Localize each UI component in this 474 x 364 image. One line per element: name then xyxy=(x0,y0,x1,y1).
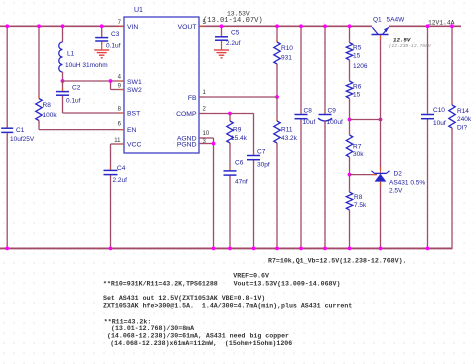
svg-text:100uf: 100uf xyxy=(327,119,343,126)
node R10 top xyxy=(275,24,279,28)
svg-text:SW1: SW1 xyxy=(127,79,142,86)
svg-text:C6: C6 xyxy=(235,159,244,166)
svg-text:R6: R6 xyxy=(353,84,362,91)
wire SW1 xyxy=(63,80,111,82)
wire AGND xyxy=(199,137,214,139)
svg-text:2.2uf: 2.2uf xyxy=(226,40,241,47)
capacitor C4 xyxy=(110,144,112,170)
svg-text:DI?: DI? xyxy=(457,125,468,132)
svg-text:240k: 240k xyxy=(457,116,472,123)
node FB junction xyxy=(275,95,279,99)
node ref junction xyxy=(348,173,352,177)
wire base node xyxy=(350,119,381,121)
capacitor C10 10uf xyxy=(427,26,429,113)
svg-text:**R10=931K/R11=43.2K,TPS61288: **R10=931K/R11=43.2K,TPS61288 Vout=13.53… xyxy=(103,281,340,288)
svg-text:R7=10k,Q1_Vb=12.5V(12.238-12.7: R7=10k,Q1_Vb=12.5V(12.238-12.768V). xyxy=(268,257,407,264)
svg-text:R9: R9 xyxy=(233,127,242,134)
svg-text:D2: D2 xyxy=(394,171,403,178)
svg-text:C9: C9 xyxy=(328,108,337,115)
svg-text:BST: BST xyxy=(127,111,140,118)
svg-text:VIN: VIN xyxy=(127,24,138,31)
node C6 bottom xyxy=(228,247,232,251)
resistor R6 15 xyxy=(349,78,351,82)
capacitor C1 xyxy=(6,26,8,127)
svg-text:43.2k: 43.2k xyxy=(281,135,298,142)
inductor L1 xyxy=(62,26,64,42)
wire EN to R8 xyxy=(39,129,124,131)
svg-text:C3: C3 xyxy=(111,31,120,38)
svg-text:2.2uf: 2.2uf xyxy=(113,177,128,184)
svg-text:100k: 100k xyxy=(43,112,58,119)
resistor R5 15 1206 xyxy=(349,26,351,42)
svg-text:12V1.4A: 12V1.4A xyxy=(428,20,455,27)
diode D2 AS431 xyxy=(375,172,387,174)
svg-text:C5: C5 xyxy=(231,30,240,37)
svg-text:10uf: 10uf xyxy=(433,120,446,127)
wire 12V output rail xyxy=(389,25,461,27)
svg-text:ZXT1053AK hfe>300@1.5A. 1.4A/: ZXT1053AK hfe>300@1.5A. 1.4A/300=4.7mA(m… xyxy=(103,303,352,310)
capacitor C5 xyxy=(221,26,223,36)
node AGND/PGND ground xyxy=(212,247,216,251)
svg-text:FB: FB xyxy=(188,95,197,102)
svg-text:COMP: COMP xyxy=(176,111,197,118)
svg-text:R11: R11 xyxy=(281,127,293,134)
svg-text:0.1uf: 0.1uf xyxy=(106,43,121,50)
capacitor C2 xyxy=(62,81,64,91)
node L1 top xyxy=(61,24,65,28)
svg-text:R8: R8 xyxy=(43,102,52,109)
node C1 bottom xyxy=(5,247,9,251)
svg-text:R10: R10 xyxy=(281,45,293,52)
svg-text:PGND: PGND xyxy=(177,142,197,149)
svg-text:(13.01-14.07V): (13.01-14.07V) xyxy=(203,17,263,25)
svg-text:30k: 30k xyxy=(353,151,364,158)
svg-text:15: 15 xyxy=(353,92,361,99)
node C8 bottom xyxy=(299,247,303,251)
transistor Q1 ZXT1053AK xyxy=(372,34,389,36)
svg-text:EN: EN xyxy=(127,127,137,134)
svg-text:L1: L1 xyxy=(67,51,75,58)
wire SW2 xyxy=(111,89,125,91)
svg-text:C10: C10 xyxy=(433,107,445,114)
node SW stub xyxy=(109,79,113,83)
node R11 bottom xyxy=(275,247,279,251)
svg-text:11: 11 xyxy=(114,138,121,144)
wire FB xyxy=(199,96,277,98)
node base junction right xyxy=(379,118,383,122)
node C8 top xyxy=(299,24,303,28)
svg-text:2.5V: 2.5V xyxy=(389,188,403,195)
wire COMP xyxy=(199,113,254,115)
svg-text:10uH 31mohm: 10uH 31mohm xyxy=(65,62,108,69)
svg-text:R14: R14 xyxy=(457,108,469,115)
node D2 bottom xyxy=(379,247,383,251)
svg-text:Q1: Q1 xyxy=(373,17,382,24)
svg-text:15.4k: 15.4k xyxy=(231,135,248,142)
wire Q1 base xyxy=(380,35,382,170)
svg-text:(14.068-12.238)x61mA=112mW, (: (14.068-12.238)x61mA=112mW, (15ohm+15ohm… xyxy=(110,340,292,347)
node R8 bottom xyxy=(348,247,352,251)
node R8 top xyxy=(37,24,41,28)
node R14 top xyxy=(450,24,454,28)
svg-text:C4: C4 xyxy=(117,165,126,172)
capacitor C8 10uf xyxy=(300,26,302,113)
svg-text:C2: C2 xyxy=(72,85,81,92)
svg-text:U1: U1 xyxy=(134,7,143,14)
capacitor C3 xyxy=(101,26,103,37)
wire PGND xyxy=(199,143,214,145)
node base junction left xyxy=(348,118,352,122)
node C10 top xyxy=(426,24,430,28)
capacitor C6 47nf xyxy=(229,167,231,171)
svg-text:0.1uf: 0.1uf xyxy=(66,98,81,105)
svg-text:15: 15 xyxy=(353,53,361,60)
svg-text:1206: 1206 xyxy=(353,63,368,70)
svg-text:R5: R5 xyxy=(353,45,362,52)
node COMP/R9 xyxy=(228,112,232,116)
svg-text:47nf: 47nf xyxy=(235,179,248,186)
svg-text:931: 931 xyxy=(281,55,292,62)
svg-text:(12.238-12.768V: (12.238-12.768V xyxy=(389,43,432,49)
svg-text:C1: C1 xyxy=(16,127,25,134)
node C1 top xyxy=(5,24,9,28)
ground below C5 xyxy=(214,49,229,51)
node PGND junction xyxy=(212,142,216,146)
svg-text:12.5V: 12.5V xyxy=(393,37,411,44)
node L1/SW junction xyxy=(61,79,65,83)
resistor R14 240k xyxy=(451,26,453,105)
node C10 bottom xyxy=(426,247,430,251)
resistor R10 931 xyxy=(276,26,278,42)
op-amp U1 TPS61288 boost converter xyxy=(124,17,199,153)
svg-text:7.5k: 7.5k xyxy=(354,202,367,209)
resistor R11 43.2k xyxy=(276,97,278,121)
chip pin stubs xyxy=(119,25,125,27)
wire VCC xyxy=(111,143,125,145)
svg-text:10uf25V: 10uf25V xyxy=(10,136,35,143)
svg-text:AS431 0.5%: AS431 0.5% xyxy=(389,180,425,187)
svg-text:SW2: SW2 xyxy=(127,87,142,94)
svg-text:10: 10 xyxy=(203,131,210,137)
wire VIN rail xyxy=(0,25,124,27)
node C7 bottom xyxy=(252,247,256,251)
svg-text:R8: R8 xyxy=(354,194,363,201)
node C4 bottom xyxy=(109,247,113,251)
wire 13.53V rail (VOUT) xyxy=(199,25,372,27)
node C9 bottom xyxy=(323,247,327,251)
svg-text:30pf: 30pf xyxy=(257,162,270,169)
capacitor C9 100uf xyxy=(324,26,326,113)
resistor R7 30k xyxy=(349,120,351,136)
wire ground rail xyxy=(0,247,453,249)
svg-text:5A4W: 5A4W xyxy=(387,17,406,24)
wire ref to D2 xyxy=(350,174,378,176)
node R5 top xyxy=(348,24,352,28)
svg-text:C7: C7 xyxy=(257,149,266,156)
node C9 top xyxy=(323,24,327,28)
svg-text:VREF=0.6V: VREF=0.6V xyxy=(233,273,269,280)
svg-text:C8: C8 xyxy=(304,108,313,115)
resistor R8 100k xyxy=(38,26,40,98)
capacitor C7 30pf xyxy=(253,114,255,155)
ground below C3 xyxy=(94,49,109,51)
svg-text:10uf: 10uf xyxy=(303,119,316,126)
svg-text:VCC: VCC xyxy=(127,142,141,149)
resistor R8 7.5k xyxy=(349,175,351,192)
svg-text:Set AS431 out 12.5V(ZXT1053AK: Set AS431 out 12.5V(ZXT1053AK VBE=0.8-1V… xyxy=(103,295,265,302)
node C3 top xyxy=(100,24,104,28)
node C5 top xyxy=(220,24,224,28)
svg-text:R7: R7 xyxy=(353,144,362,151)
wire BST xyxy=(63,112,125,114)
svg-text:(14.068-12.238)/30=61mA, AS431: (14.068-12.238)/30=61mA, AS431 need big … xyxy=(107,333,289,340)
resistor R9 15.4k xyxy=(229,114,231,122)
svg-text:(13.01-12.768)/30=8mA: (13.01-12.768)/30=8mA xyxy=(111,325,194,332)
svg-text:VOUT: VOUT xyxy=(178,24,197,31)
